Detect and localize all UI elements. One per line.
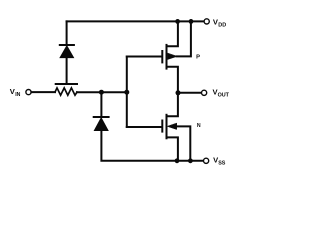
diode D1 cathode bar: [60, 44, 74, 46]
junction dot VDD source: [175, 19, 180, 24]
svg-text:P: P: [196, 54, 200, 60]
pmos P gate bar: [161, 51, 163, 62]
nmos N channel bar: [166, 115, 168, 139]
junction dot VSS bulk: [188, 158, 193, 163]
junction dot VDD bulk: [189, 19, 194, 24]
terminal VIN: [26, 90, 31, 95]
pmos P drain lead down: [167, 67, 178, 93]
wire resistor to gate bus: [77, 91, 128, 93]
nmos N bulk lead to VSS: [177, 126, 191, 160]
wire VOUT: [178, 92, 201, 94]
diode D1 distributed anode bar over resistor: [56, 83, 77, 85]
diode D2 triangle: [94, 118, 108, 131]
diode D1 triangle: [60, 46, 73, 58]
junction node input/diode D2: [99, 90, 104, 95]
junction dot gate bus / input: [124, 90, 129, 95]
nmos N drain lead up: [167, 93, 178, 116]
resistor R: [55, 88, 77, 95]
wire node to diode D2: [100, 92, 102, 116]
wire diode D2 anode to VSS rail: [101, 131, 203, 161]
junction dot VOUT node: [176, 90, 181, 95]
diode D2 cathode bar: [94, 116, 109, 118]
svg-text:OUT: OUT: [218, 93, 230, 99]
wire VIN to resistor: [31, 91, 55, 93]
terminal VOUT: [202, 90, 207, 95]
nmos N gate lead: [127, 126, 161, 128]
pmos P gate lead: [127, 56, 161, 58]
svg-text:SS: SS: [218, 161, 226, 167]
wire upper diode branch to VDD rail: [66, 21, 68, 44]
svg-text:DD: DD: [218, 23, 226, 29]
junction dot VSS source: [175, 158, 180, 163]
svg-text:IN: IN: [15, 92, 20, 98]
pmos P source lead to VDD: [167, 21, 178, 46]
svg-text:N: N: [197, 123, 201, 129]
terminal VSS: [204, 158, 209, 163]
terminal VDD: [204, 19, 209, 24]
pmos P bulk arrow: [168, 53, 177, 59]
nmos N bulk arrow: [167, 123, 176, 129]
nmos N source lead to VSS: [167, 137, 178, 160]
nmos N gate bar: [161, 121, 163, 132]
wire diode D1 to distributed anode: [66, 58, 68, 84]
pmos P channel bar: [166, 45, 168, 69]
wire VDD rail: [67, 20, 205, 22]
gate bus vertical: [126, 57, 128, 128]
pmos P bulk lead to VDD: [177, 21, 191, 56]
